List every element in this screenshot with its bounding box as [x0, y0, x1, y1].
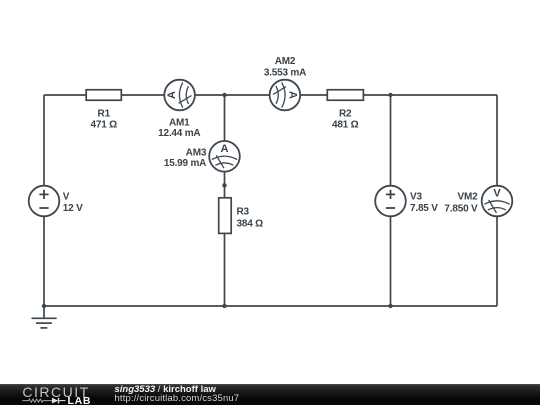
svg-text:12 V: 12 V: [63, 203, 83, 214]
svg-text:471 Ω: 471 Ω: [91, 119, 118, 130]
svg-text:AM1: AM1: [169, 117, 190, 128]
svg-text:12.44 mA: 12.44 mA: [158, 128, 200, 139]
svg-text:A: A: [221, 143, 229, 155]
svg-text:V3: V3: [410, 192, 422, 203]
svg-text:3.553 mA: 3.553 mA: [264, 67, 306, 78]
svg-text:VM2: VM2: [458, 192, 479, 203]
svg-text:LAB: LAB: [68, 395, 92, 405]
svg-text:AM2: AM2: [275, 56, 296, 67]
svg-text:R3: R3: [237, 207, 250, 218]
svg-text:384 Ω: 384 Ω: [237, 218, 264, 229]
svg-text:V: V: [493, 188, 501, 200]
svg-text:7.85 V: 7.85 V: [410, 203, 438, 214]
svg-text:481 Ω: 481 Ω: [332, 119, 359, 130]
svg-text:AM3: AM3: [186, 148, 207, 159]
svg-text:A: A: [166, 91, 178, 99]
svg-text:R1: R1: [98, 109, 111, 120]
svg-text:7.850 V: 7.850 V: [444, 204, 478, 215]
svg-text:A: A: [286, 91, 298, 99]
svg-text:15.99 mA: 15.99 mA: [164, 158, 206, 169]
svg-text:R2: R2: [339, 109, 352, 120]
svg-text:V: V: [63, 192, 70, 203]
